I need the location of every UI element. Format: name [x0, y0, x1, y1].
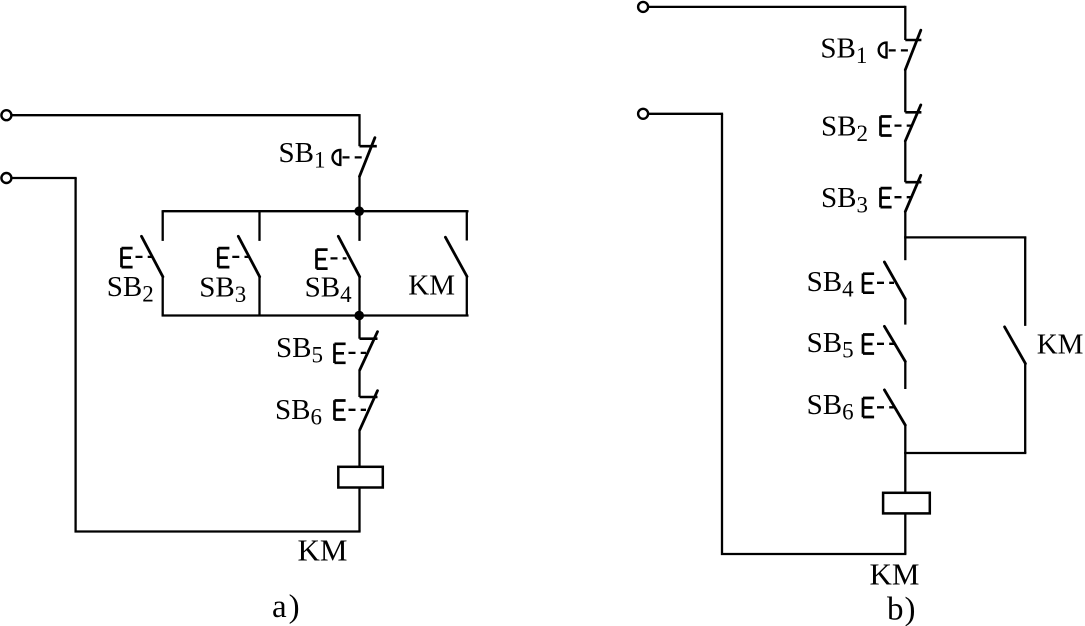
terminal T4 (lower)	[638, 109, 648, 119]
wire: T2 stub	[12, 177, 77, 179]
wire: node C tee to KM branch (top)	[905, 236, 1025, 237]
wire: T3 to SB1 top	[648, 6, 905, 8]
pushbutton SB1 (NC): bar, blade, button cap, dashed link	[879, 30, 922, 69]
terminal T3 (upper)	[638, 2, 648, 12]
wire: down to SB1	[904, 6, 906, 40]
actuator E of SB5 + dashed link	[863, 334, 894, 353]
terminal T2 (lower left)	[1, 173, 11, 183]
coil KM (rectangle)	[338, 467, 383, 488]
wire: node D to coil	[904, 453, 906, 493]
svg-text:SB6: SB6	[807, 389, 854, 425]
pushbutton SB6 (NC): bar, blade, actuator E, dashed link	[335, 391, 378, 430]
contact SB6 (NO pushbutton)	[884, 390, 905, 453]
actuator E of SB4 + dashed link	[317, 249, 347, 268]
node A (junction dot, top bus)	[354, 206, 364, 216]
wire: SB6 to coil	[358, 430, 360, 467]
wire: T4 stub	[648, 113, 723, 115]
svg-text:SB4: SB4	[305, 272, 352, 308]
wire: bottom bus	[163, 316, 468, 317]
svg-text:SB6: SB6	[275, 394, 322, 430]
svg-text:SB5: SB5	[807, 327, 854, 363]
wire: bottom return (right)	[722, 114, 906, 554]
svg-text:SB4: SB4	[807, 266, 854, 302]
terminal T1 (upper left)	[1, 110, 11, 120]
pushbutton SB3 (NC): bar, blade, actuator E, dashed link	[881, 175, 922, 211]
wire: SB5 to SB6	[358, 370, 360, 397]
contact KM (NO auxiliary) branch	[445, 211, 467, 315]
wire: SB2 to SB3	[904, 141, 906, 182]
wire: SB1 to node A	[358, 176, 360, 211]
wire: down to SB1	[358, 114, 360, 146]
wire: bottom return	[76, 178, 361, 532]
svg-text:SB5: SB5	[276, 332, 323, 368]
pushbutton SB1 (NC): fixed bar, blade, button cap, dashed link	[332, 138, 376, 177]
svg-text:SB3: SB3	[821, 182, 868, 218]
actuator E of SB4 + dashed link	[863, 274, 894, 293]
svg-text:SB3: SB3	[199, 272, 246, 308]
contact SB4 (NO pushbutton) branch	[338, 211, 359, 315]
wire: coil to bottom	[358, 488, 360, 532]
wire: node C down to SB4	[904, 237, 906, 260]
svg-text:KM: KM	[408, 270, 455, 302]
pushbutton SB2 (NC): bar, blade, actuator E, dashed link	[881, 105, 922, 141]
wire: bottom tee of KM branch	[905, 453, 1025, 454]
wire: T1 to SB1 top (horizontal)	[12, 114, 360, 116]
actuator E of SB2 + dashed link	[122, 248, 152, 267]
svg-text:SB1: SB1	[279, 137, 326, 173]
svg-text:SB2: SB2	[107, 271, 154, 307]
contact SB3 (NO pushbutton) branch	[238, 211, 259, 315]
contact SB4 (NO pushbutton)	[884, 262, 905, 325]
pushbutton SB5 (NC): bar, blade, actuator E, dashed link	[335, 332, 378, 370]
wire: node B to SB5	[358, 316, 360, 339]
wire: coil to bottom	[904, 513, 906, 554]
svg-text:a): a)	[272, 589, 302, 625]
svg-text:KM: KM	[1037, 329, 1084, 361]
wire: SB1 to SB2	[904, 70, 906, 113]
contact KM (NO auxiliary, right branch)	[1005, 237, 1026, 453]
svg-text:b): b)	[887, 592, 917, 626]
coil KM (rectangle, right)	[883, 493, 930, 514]
contact SB2 (NO pushbutton) branch	[142, 211, 163, 315]
svg-text:SB1: SB1	[820, 33, 867, 69]
svg-text:KM: KM	[298, 533, 348, 568]
actuator E of SB6 + dashed link	[863, 398, 894, 417]
contact SB5 (NO pushbutton)	[884, 326, 905, 389]
wire: SB3 to node C	[904, 212, 906, 238]
svg-text:SB2: SB2	[821, 111, 868, 147]
wire: top bus	[163, 210, 468, 211]
svg-text:KM: KM	[870, 557, 920, 592]
actuator E of SB3 + dashed link	[218, 248, 248, 267]
node B (junction dot, bottom bus)	[354, 311, 364, 321]
